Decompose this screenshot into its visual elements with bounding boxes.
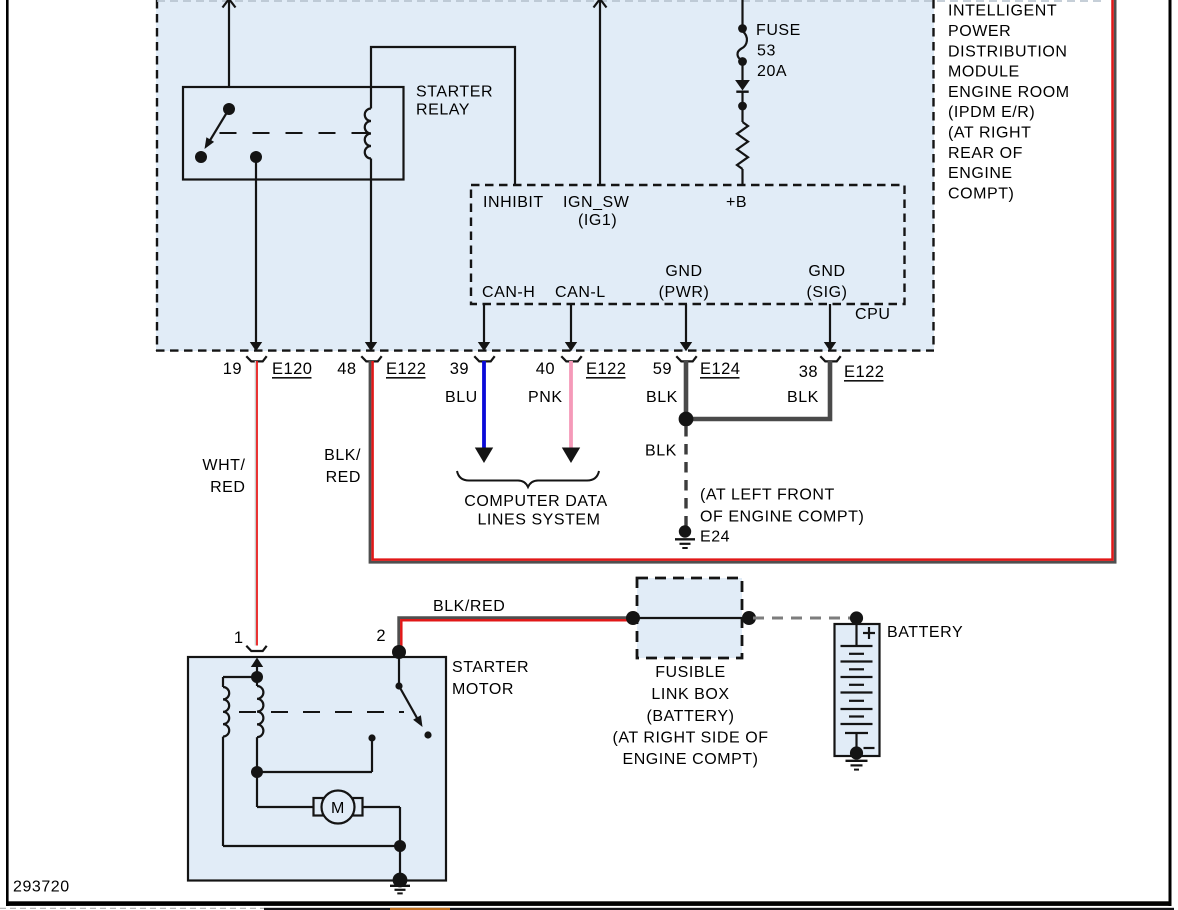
wire BLK/RED pin48 right-side loop to off-page top (370, 0, 1115, 562)
wire relay switch to pin 19 (250, 157, 262, 351)
svg-text:GND: GND (665, 263, 702, 280)
CPU label (855, 306, 890, 323)
svg-text:40: 40 (536, 360, 555, 378)
svg-text:E120: E120 (272, 360, 312, 378)
svg-text:COMPUTER DATA: COMPUTER DATA (464, 493, 607, 510)
fuse 53 20A (737, 0, 746, 80)
svg-text:INTELLIGENT: INTELLIGENT (948, 3, 1057, 20)
starter relay label (416, 84, 493, 119)
ground starter motor (390, 873, 410, 894)
fusible link label (612, 664, 768, 768)
motor coil L2 (pull-in) (223, 677, 257, 846)
IPDM location label (948, 3, 1070, 203)
svg-text:LINES SYSTEM: LINES SYSTEM (477, 512, 600, 529)
brace computer data lines (457, 471, 599, 487)
svg-text:FUSIBLE: FUSIBLE (655, 664, 726, 681)
motor coil L3 (hold-in) (257, 677, 263, 772)
wire WHT/RED pin19 to starter motor pin1 (255, 361, 257, 646)
connector pin 38 E122 (799, 356, 885, 381)
svg-text:BLK/: BLK/ (324, 447, 361, 464)
svg-text:STARTER: STARTER (452, 659, 529, 676)
starter relay box (183, 87, 404, 180)
svg-text:E122: E122 (386, 360, 426, 378)
svg-text:(IPDM E/R): (IPDM E/R) (948, 104, 1035, 121)
wire GND(PWR) to pin 59 (680, 304, 692, 351)
wire from off-page to relay switch (223, 0, 236, 87)
svg-text:E122: E122 (844, 363, 884, 381)
svg-text:59: 59 (653, 360, 672, 378)
junction node (679, 412, 694, 427)
svg-text:REAR OF: REAR OF (948, 145, 1023, 162)
wire motor to ground (223, 807, 406, 879)
connector pin 40 E122 (536, 356, 627, 378)
label at left front of engine compt (700, 487, 864, 526)
IPDM E/R module box (dashed, blue fill) (156, 0, 934, 351)
wire BLK pin 38 (688, 361, 830, 419)
diagram number (13, 878, 70, 895)
starter motor box (188, 657, 446, 881)
faint cut-off dashed line at top (157, 0, 1106, 2)
svg-text:STARTER: STARTER (416, 84, 493, 101)
wire PNK pin 40 (528, 361, 580, 463)
wire switch contact to coil junction (251, 766, 372, 807)
connector pin 48 E122 (337, 356, 426, 378)
svg-text:MOTOR: MOTOR (452, 681, 514, 698)
svg-text:IGN_SW: IGN_SW (563, 194, 630, 211)
CPU pin labels (482, 194, 847, 301)
connector pin 59 E124 (653, 356, 741, 378)
svg-text:M: M (331, 800, 345, 817)
fusible link box (637, 578, 742, 658)
relay coil L1 (365, 87, 371, 159)
svg-text:CPU: CPU (855, 306, 890, 323)
wire IGN_SW from off-page (594, 0, 607, 185)
svg-text:BLK: BLK (646, 389, 678, 406)
wire GND(SIG) to pin 38 (824, 304, 836, 351)
wire relay coil top to INHIBIT (371, 47, 515, 185)
svg-text:E24: E24 (700, 529, 730, 546)
motor switch (368, 657, 431, 772)
svg-text:CAN-L: CAN-L (555, 284, 606, 301)
svg-text:(BATTERY): (BATTERY) (647, 708, 735, 725)
svg-text:RELAY: RELAY (416, 102, 470, 119)
svg-text:FUSE: FUSE (756, 22, 801, 39)
svg-text:E124: E124 (700, 360, 740, 378)
wire through fusible link (626, 611, 756, 625)
resistor R1 (737, 110, 748, 186)
connector pin 19 E120 (223, 356, 313, 378)
fuse label (756, 22, 801, 80)
svg-text:RED: RED (210, 479, 245, 496)
svg-text:BLK: BLK (787, 389, 819, 406)
wire BLU pin 39 (445, 361, 493, 463)
diode D1 (735, 80, 750, 110)
wire BLK pin 59 (646, 361, 686, 419)
svg-text:BATTERY: BATTERY (887, 624, 963, 641)
svg-text:OF ENGINE COMPT): OF ENGINE COMPT) (700, 509, 864, 526)
label computer data lines system (464, 493, 607, 529)
svg-text:2: 2 (376, 627, 386, 645)
svg-text:INHIBIT: INHIBIT (483, 194, 544, 211)
wire BLK dashed to ground E24 (645, 426, 686, 526)
wire CAN-H to pin 39 (478, 304, 490, 351)
svg-text:(AT RIGHT SIDE OF: (AT RIGHT SIDE OF (612, 730, 768, 747)
relay switch (195, 103, 262, 163)
svg-text:(IG1): (IG1) (578, 212, 617, 229)
svg-text:BLK/RED: BLK/RED (433, 598, 505, 615)
relay actuation dashed link (220, 132, 372, 134)
svg-text:39: 39 (450, 360, 469, 378)
svg-text:E122: E122 (586, 360, 626, 378)
svg-text:48: 48 (337, 360, 356, 378)
svg-text:LINK BOX: LINK BOX (651, 686, 729, 703)
svg-text:ENGINE: ENGINE (948, 165, 1013, 182)
wire CAN-L to pin 40 (565, 304, 577, 351)
label WHT/RED (202, 457, 245, 496)
svg-text:38: 38 (799, 363, 818, 381)
svg-text:PNK: PNK (528, 389, 563, 406)
wire relay coil to pin 48 (365, 159, 377, 352)
svg-text:(AT LEFT FRONT: (AT LEFT FRONT (700, 487, 835, 504)
battery (835, 611, 880, 759)
svg-text:ENGINE COMPT): ENGINE COMPT) (622, 751, 758, 768)
svg-text:19: 19 (223, 360, 242, 378)
connector pin 39 (450, 356, 495, 378)
svg-text:1: 1 (234, 629, 244, 647)
svg-text:(AT RIGHT: (AT RIGHT (948, 125, 1031, 142)
page bottom border (6, 901, 1172, 906)
connector pin 1 (234, 629, 267, 651)
page left border (6, 0, 9, 906)
ground battery (846, 761, 868, 770)
svg-text:ENGINE ROOM: ENGINE ROOM (948, 84, 1070, 101)
svg-text:BLK: BLK (645, 443, 677, 460)
page right border (1169, 0, 1172, 906)
svg-text:DISTRIBUTION: DISTRIBUTION (948, 43, 1068, 60)
wire BLK/RED pin2 to fusible link (399, 598, 633, 651)
ground E24 (675, 525, 730, 548)
svg-text:WHT/: WHT/ (202, 457, 245, 474)
svg-text:53: 53 (757, 43, 776, 60)
svg-text:POWER: POWER (948, 23, 1011, 40)
svg-text:+B: +B (726, 194, 747, 211)
svg-text:BLU: BLU (445, 389, 478, 406)
node pin 2 (392, 645, 406, 659)
motor M1 (314, 791, 363, 824)
battery label (887, 624, 963, 641)
svg-text:CAN-H: CAN-H (482, 284, 535, 301)
connector pin 2 (376, 627, 386, 645)
svg-text:(PWR): (PWR) (659, 284, 710, 301)
label BLK/RED vertical (324, 447, 361, 486)
svg-text:RED: RED (326, 469, 361, 486)
pin 1 entry arrow (251, 658, 263, 684)
svg-text:MODULE: MODULE (948, 64, 1020, 81)
svg-text:(SIG): (SIG) (807, 284, 848, 301)
motor switch dashed link (239, 711, 404, 713)
wire dashed to battery (753, 617, 851, 620)
next page top bar (0, 908, 1174, 910)
starter motor label (452, 659, 529, 698)
svg-text:GND: GND (808, 263, 845, 280)
svg-text:20A: 20A (757, 63, 787, 80)
CPU box (dashed) (471, 185, 905, 304)
svg-text:COMPT): COMPT) (948, 185, 1014, 202)
svg-text:293720: 293720 (13, 878, 70, 895)
